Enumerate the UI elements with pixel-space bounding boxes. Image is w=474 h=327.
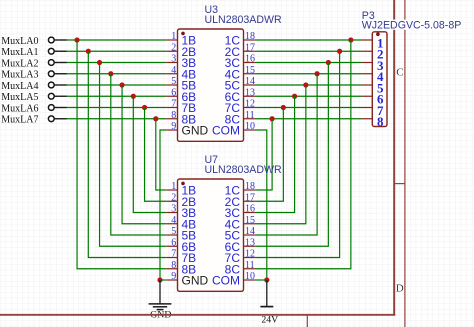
U7 pin 11 (8C) [225, 260, 255, 277]
svg-text:7: 7 [171, 249, 176, 260]
wire U7 pin 9 GND to ground node [160, 279, 166, 281]
svg-text:MuxLA0: MuxLA0 [1, 36, 38, 47]
U3 pin 7 (7B) [166, 99, 196, 116]
svg-text:3: 3 [171, 54, 176, 65]
svg-text:16: 16 [245, 54, 255, 65]
svg-text:4: 4 [171, 215, 176, 226]
terminal circle MuxLA0 [48, 37, 54, 43]
wire U3 pin 15 to P3 pin 4 [255, 73, 361, 75]
svg-text:8: 8 [171, 110, 176, 121]
junction MuxLA3 [108, 71, 113, 76]
wire MuxLA1 row to U3 pin 2 [67, 50, 166, 52]
U3 pin 12 (7C) [225, 99, 255, 116]
wire U3 pin 16 to P3 pin 3 [255, 62, 361, 64]
svg-text:ULN2803ADWR: ULN2803ADWR [205, 164, 282, 176]
power symbol 24V bar [266, 280, 268, 307]
U7 pin 2 (2B) [166, 192, 196, 209]
U3 pin 5 (5B) [166, 76, 196, 93]
U7 pin 1 (1B) [166, 181, 196, 198]
IC U7 ULN2803ADWR body [178, 179, 244, 291]
U3 pin 17 (2C) [225, 42, 255, 59]
junction 24V node at U7 COM [264, 277, 269, 282]
svg-text:MuxLA1: MuxLA1 [1, 47, 38, 58]
U7 pin 16 (3C) [225, 204, 255, 221]
svg-text:MuxLA3: MuxLA3 [1, 70, 38, 81]
junction MuxLA0 [74, 37, 79, 42]
wire U3 pin 18 to P3 pin 1 [255, 39, 361, 41]
wire MuxLA7 row to U3 pin 8 [67, 118, 166, 120]
svg-text:4: 4 [171, 65, 176, 76]
wire U3 pin 9 GND down to ground node [160, 130, 166, 280]
junction MuxLA1 [86, 49, 91, 54]
junction output row 16 [326, 60, 331, 65]
junction output row 12 [281, 105, 286, 110]
junction output row 11 [270, 116, 275, 121]
U7 pin 5 (5B) [166, 226, 196, 243]
wire riser to U7 pin 12 (2C) [255, 108, 284, 202]
U3 pin 14 (5C) [225, 76, 255, 93]
terminal circle MuxLA3 [48, 71, 54, 77]
wire riser to U7 pin 15 (5C) [255, 74, 317, 235]
svg-text:18: 18 [245, 31, 255, 42]
wire U3 pin 14 to P3 pin 5 [255, 84, 361, 86]
svg-text:MuxLA5: MuxLA5 [1, 92, 38, 103]
U3 pin 3 (3B) [166, 54, 196, 71]
junction MuxLA2 [97, 60, 102, 65]
U3 pin 15 (4C) [225, 65, 255, 82]
P3 pin 6 [361, 92, 384, 107]
junction output row 17 [337, 49, 342, 54]
svg-text:5: 5 [171, 226, 176, 237]
svg-text:12: 12 [245, 99, 255, 110]
wire U3 pin 17 to P3 pin 2 [255, 50, 361, 52]
P3 pin-1 marker dot [376, 32, 380, 36]
svg-text:1: 1 [171, 31, 176, 42]
wire MuxLA4 row to U3 pin 5 [67, 84, 166, 86]
U3 pin 6 (6B) [166, 87, 196, 104]
U3 pin 8 (8B) [166, 110, 196, 127]
svg-text:16: 16 [245, 204, 255, 215]
U7 pin 8 (8B) [166, 260, 196, 277]
U3 pin 18 (1C) [225, 31, 255, 48]
svg-text:MuxLA6: MuxLA6 [1, 103, 38, 114]
svg-text:24V: 24V [261, 315, 278, 326]
U7 pin 7 (7B) [166, 249, 196, 266]
svg-text:14: 14 [245, 226, 255, 237]
junction MuxLA5 [131, 94, 136, 99]
svg-text:ULN2803ADWR: ULN2803ADWR [205, 14, 282, 26]
junction output row 18 [348, 37, 353, 42]
svg-text:10: 10 [245, 121, 255, 132]
junction ground node at U7 GND [157, 277, 162, 282]
junction output row 15 [315, 71, 320, 76]
svg-text:11: 11 [245, 110, 255, 121]
svg-text:14: 14 [245, 76, 255, 87]
svg-text:9: 9 [171, 121, 176, 132]
terminal circle MuxLA2 [48, 60, 54, 66]
lead MuxLA6 [55, 107, 67, 109]
wire MuxLA7 riser to U7 pin 1 (1B) [156, 119, 166, 190]
wire MuxLA2 riser to U7 pin 6 (6B) [100, 63, 167, 247]
ground symbol [159, 280, 161, 304]
svg-text:6: 6 [171, 87, 176, 98]
wire riser to U7 pin 13 (3C) [255, 96, 295, 212]
wire riser to U7 pin 17 (7C) [255, 51, 340, 257]
svg-text:17: 17 [245, 192, 255, 203]
svg-text:COM: COM [212, 274, 240, 288]
wire MuxLA6 row to U3 pin 7 [67, 107, 166, 109]
P3 pin 3 [361, 58, 384, 73]
U7 pin 6 (6B) [166, 237, 196, 254]
junction output row 13 [292, 94, 297, 99]
U7 pin 12 (7C) [225, 249, 255, 266]
U7 pin 15 (4C) [225, 215, 255, 232]
lead MuxLA0 [55, 39, 67, 41]
lead MuxLA1 [55, 50, 67, 52]
wire U3 pin 10 COM down to 24V node [255, 130, 267, 280]
svg-text:15: 15 [245, 215, 255, 226]
svg-text:WJ2EDGVC-5.08-8P: WJ2EDGVC-5.08-8P [362, 20, 462, 32]
U7 pin 3 (3B) [166, 204, 196, 221]
svg-text:15: 15 [245, 65, 255, 76]
svg-text:18: 18 [245, 181, 255, 192]
svg-text:COM: COM [212, 124, 240, 138]
U3 pin 11 (8C) [225, 110, 255, 127]
lead MuxLA5 [55, 95, 67, 97]
terminal circle MuxLA7 [48, 116, 54, 122]
U7 pin 18 (1C) [225, 181, 255, 198]
svg-text:MuxLA4: MuxLA4 [1, 81, 38, 92]
wire MuxLA0 row to U3 pin 1 [67, 39, 166, 41]
svg-text:17: 17 [245, 42, 255, 53]
terminal circle MuxLA4 [48, 82, 54, 88]
svg-text:8: 8 [171, 260, 176, 271]
svg-text:2: 2 [171, 42, 176, 53]
wire MuxLA1 riser to U7 pin 7 (7B) [88, 51, 166, 257]
terminal circle MuxLA5 [48, 93, 54, 99]
P3 pin 8 [361, 114, 384, 129]
wire riser to U7 pin 11 (1C) [255, 119, 272, 190]
svg-text:MuxLA2: MuxLA2 [1, 58, 38, 69]
wire MuxLA3 row to U3 pin 4 [67, 73, 166, 75]
lead MuxLA4 [55, 84, 67, 86]
svg-text:7: 7 [171, 99, 176, 110]
svg-text:D: D [396, 282, 404, 294]
junction MuxLA7 [153, 116, 158, 121]
U7 pin-1 marker dot [181, 182, 185, 186]
lead MuxLA7 [55, 118, 67, 120]
svg-text:6: 6 [171, 237, 176, 248]
wire U7 pin 10 COM to 24V node [255, 279, 267, 281]
U7 pin 4 (4B) [166, 215, 196, 232]
P3 pin 7 [361, 103, 384, 118]
wire MuxLA5 riser to U7 pin 3 (3B) [133, 96, 166, 212]
wire U3 pin 11 to P3 pin 8 [255, 118, 361, 120]
lead MuxLA3 [55, 73, 67, 75]
IC U3 ULN2803ADWR body [178, 29, 244, 141]
svg-text:8: 8 [377, 114, 384, 129]
svg-text:1: 1 [171, 181, 176, 192]
U3 pin 4 (4B) [166, 65, 196, 82]
U7 pin 13 (6C) [225, 237, 255, 254]
P3 pin 2 [361, 47, 383, 62]
U7 pin 10 (COM) [212, 271, 255, 288]
wire MuxLA5 row to U3 pin 6 [67, 95, 166, 97]
wire MuxLA6 riser to U7 pin 2 (2B) [145, 108, 167, 202]
U7 pin 14 (5C) [225, 226, 255, 243]
P3 pin 5 [361, 80, 384, 95]
U3 pin 16 (3C) [225, 54, 255, 71]
U3 pin 10 (COM) [212, 121, 255, 138]
wire MuxLA0 riser to U7 pin 8 (8B) [77, 40, 166, 269]
svg-text:MuxLA7: MuxLA7 [1, 115, 38, 126]
wire riser to U7 pin 14 (4C) [255, 85, 306, 224]
U3 pin 1 (1B) [166, 31, 196, 48]
svg-text:12: 12 [245, 249, 255, 260]
wire U3 pin 13 to P3 pin 6 [255, 95, 361, 97]
U3 pin-1 marker dot [181, 32, 185, 36]
svg-text:9: 9 [171, 271, 176, 282]
wire U3 pin 12 to P3 pin 7 [255, 107, 361, 109]
P3 pin 1 [361, 35, 383, 50]
U7 pin 9 (GND) [166, 271, 208, 288]
wire MuxLA2 row to U3 pin 3 [67, 62, 166, 64]
wire riser to U7 pin 18 (8C) [255, 40, 351, 269]
wire MuxLA4 riser to U7 pin 4 (4B) [122, 85, 166, 224]
U3 pin 9 (GND) [166, 121, 208, 138]
junction output row 14 [303, 82, 308, 87]
junction MuxLA4 [119, 82, 124, 87]
svg-text:3: 3 [171, 204, 176, 215]
svg-text:GND: GND [182, 124, 209, 138]
terminal circle MuxLA1 [48, 48, 54, 54]
terminal circle MuxLA6 [48, 105, 54, 111]
U7 pin 17 (2C) [225, 192, 255, 209]
svg-text:13: 13 [245, 237, 255, 248]
U3 pin 2 (2B) [166, 42, 196, 59]
svg-text:GND: GND [182, 274, 209, 288]
svg-text:11: 11 [245, 260, 255, 271]
U3 pin 13 (6C) [225, 87, 255, 104]
P3 value WJ2EDGVC-5.08-8P [361, 20, 460, 30]
svg-text:5: 5 [171, 76, 176, 87]
svg-text:13: 13 [245, 87, 255, 98]
lead MuxLA2 [55, 62, 67, 64]
P3 pin 4 [361, 69, 384, 84]
svg-text:10: 10 [245, 271, 255, 282]
wire MuxLA3 riser to U7 pin 5 (5B) [111, 74, 166, 235]
connector P3 body [372, 32, 387, 127]
svg-text:C: C [396, 67, 403, 79]
svg-text:2: 2 [171, 192, 176, 203]
junction MuxLA6 [142, 105, 147, 110]
wire riser to U7 pin 16 (6C) [255, 63, 329, 247]
